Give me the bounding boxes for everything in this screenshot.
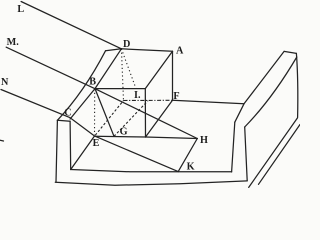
svg-text:H: H xyxy=(200,135,208,146)
dash-dot I to F xyxy=(124,99,173,101)
left wall inner vertical xyxy=(69,121,72,169)
bottom slab right end lower edge xyxy=(259,125,301,185)
line C'-H xyxy=(146,137,198,139)
cube bottom front edge E-C' xyxy=(95,135,146,138)
far wall inner top edge F-right xyxy=(173,100,245,104)
cube edge D-B xyxy=(95,49,121,89)
left margin stub xyxy=(0,139,4,142)
svg-text:K: K xyxy=(187,161,195,172)
svg-text:E: E xyxy=(93,138,100,149)
svg-text:C: C xyxy=(64,108,71,119)
dashed G up-right xyxy=(114,101,148,137)
vessel inner bottom edge xyxy=(71,170,232,172)
dotted D to point on B-P xyxy=(121,49,136,89)
far wall top end edge xyxy=(284,51,296,53)
cube top front edge B-P xyxy=(95,88,145,90)
svg-text:B: B xyxy=(89,77,96,88)
line B-G xyxy=(95,89,114,137)
svg-text:A: A xyxy=(176,46,184,57)
left wall front top edge xyxy=(57,120,70,121)
line H-K xyxy=(178,139,197,172)
left wall inner top edge C-B xyxy=(70,89,95,119)
svg-text:M.: M. xyxy=(7,37,20,48)
cube right back edge A-F xyxy=(172,51,174,100)
far wall outer right edge xyxy=(296,53,297,117)
cube edge A-P xyxy=(145,51,172,88)
svg-text:N: N xyxy=(1,77,9,88)
svg-text:D: D xyxy=(123,39,130,50)
left wall outer top edge xyxy=(57,51,105,121)
cube right face bottom edge F-C' xyxy=(146,100,173,137)
cube front right vertical P-C' xyxy=(144,89,146,137)
inner end face top diagonal xyxy=(235,104,244,122)
vessel outer bottom edge xyxy=(55,181,247,185)
cube top edge D-A xyxy=(121,49,172,52)
inner bottom left corner to E xyxy=(71,136,95,170)
left wall top connector to D xyxy=(106,49,122,51)
dotted B-E xyxy=(94,89,96,135)
svg-text:F: F xyxy=(173,91,179,102)
sight line M xyxy=(6,47,197,138)
sight line L xyxy=(21,2,121,49)
svg-text:L: L xyxy=(17,4,24,15)
inner wall left vertical xyxy=(232,122,235,172)
bottom slab right end upper edge xyxy=(249,118,298,187)
sight line N xyxy=(1,90,178,172)
dotted D to I (hidden corner) xyxy=(121,49,123,101)
svg-text:G: G xyxy=(120,127,128,138)
inner right vertical xyxy=(245,127,248,181)
inner rising edge to top corner xyxy=(245,57,297,127)
far wall top inner rising edge xyxy=(244,51,284,103)
svg-text:I.: I. xyxy=(134,90,141,101)
left wall outer vertical xyxy=(56,120,57,182)
dashed E to I xyxy=(95,101,123,136)
